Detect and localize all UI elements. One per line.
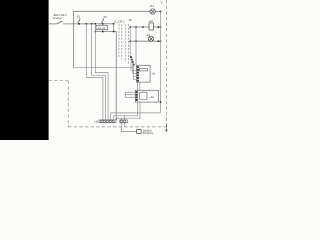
junction bus3 x95.3 bbox=[95, 31, 97, 33]
wire bus1 right segment bbox=[155, 11, 160, 13]
wire cable cores dashed bbox=[119, 24, 128, 64]
terminal strip X1 bbox=[99, 120, 116, 123]
wire box2 left feeds bbox=[126, 92, 136, 97]
junction bus2 x91.5 bbox=[91, 23, 93, 25]
wire to right terminals bbox=[124, 116, 126, 120]
wire box1 to box2 bbox=[137, 82, 139, 90]
junction right bus box2 bbox=[160, 101, 162, 103]
wire box2 to strip 2 bbox=[117, 102, 140, 120]
wire drop x91.5 bbox=[92, 24, 106, 120]
lamp P1 bbox=[150, 9, 155, 14]
svg-text:-LM: -LM bbox=[94, 121, 98, 124]
connector key bar A1 bbox=[139, 69, 147, 71]
wire drop x95.3 bbox=[95, 24, 108, 120]
svg-text:ein/aus: ein/aus bbox=[53, 16, 63, 20]
wire row B y41.2 bbox=[130, 40, 160, 42]
svg-text:-K1-A1: -K1-A1 bbox=[97, 26, 106, 30]
relay coil K1 box bbox=[96, 26, 108, 30]
junction bus2 x113.6 bbox=[113, 23, 115, 25]
contact S1 bbox=[78, 19, 80, 23]
box A2 bbox=[135, 90, 158, 102]
svg-text:-A2: -A2 bbox=[150, 95, 155, 99]
wire drop x86.3 bbox=[86, 24, 103, 120]
switch S0 contact bbox=[57, 21, 63, 24]
node connector cluster bbox=[130, 56, 132, 58]
relay symbol inside A2 bbox=[140, 92, 148, 99]
svg-text:-P2: -P2 bbox=[146, 33, 151, 37]
box A1 bbox=[137, 65, 151, 82]
junction bus2 x86.3 bbox=[86, 23, 88, 25]
wire stub terminal to border bbox=[124, 123, 126, 127]
wire row A y27 bbox=[130, 26, 149, 28]
junction bus3 x102.7 bbox=[102, 31, 104, 33]
enclosure dashed border bbox=[49, 0, 167, 127]
svg-text:-P1: -P1 bbox=[149, 4, 154, 8]
valve Y1 box bbox=[137, 129, 142, 133]
junction bus2 x102.7 bbox=[102, 23, 104, 25]
junction S1/bus2 bbox=[78, 23, 80, 25]
right bus bbox=[111, 12, 161, 120]
wire pin links bbox=[131, 57, 137, 80]
terminal circles bbox=[100, 120, 126, 122]
svg-text:-A1: -A1 bbox=[151, 72, 156, 76]
junction bus3 x113.6 bbox=[113, 31, 115, 33]
junction rowB dots bbox=[130, 41, 132, 43]
svg-text:-S2: -S2 bbox=[103, 15, 108, 19]
wire box2 to strip bbox=[114, 102, 138, 120]
contact S2 bbox=[101, 20, 103, 24]
svg-text:-S1: -S1 bbox=[76, 14, 81, 18]
svg-text:Entnahme: Entnahme bbox=[143, 132, 154, 135]
lamp P2 bbox=[148, 36, 153, 41]
wire coil stubs bbox=[102, 24, 104, 26]
wire to valve bbox=[121, 123, 136, 132]
svg-text:2L 2 2R 2: 2L 2 2R 2 bbox=[114, 20, 125, 23]
junction bus1/right bus bbox=[160, 11, 162, 13]
wire bus3 bbox=[95, 32, 116, 120]
junction rowA dots bbox=[130, 26, 132, 28]
flow arrow bbox=[165, 124, 167, 130]
wire branch bus2-bus3 bbox=[113, 24, 115, 32]
svg-text:2: 2 bbox=[161, 0, 163, 4]
wire bus1 top rail bbox=[73, 11, 149, 67]
wire bus2 bbox=[49, 23, 57, 25]
svg-text:-K1: -K1 bbox=[149, 19, 154, 23]
wire x136 drop bbox=[135, 27, 137, 65]
junction bus2 x95.3 bbox=[95, 23, 97, 25]
wire x130 drop bbox=[129, 27, 131, 57]
connector pins A2 bbox=[136, 91, 138, 101]
wire feed to box1 bbox=[73, 66, 133, 68]
resistor K1b bbox=[149, 23, 153, 30]
svg-text:2R: 2R bbox=[129, 19, 132, 22]
connector pins A1 bbox=[137, 66, 139, 81]
scan black margin band bbox=[0, 0, 49, 140]
